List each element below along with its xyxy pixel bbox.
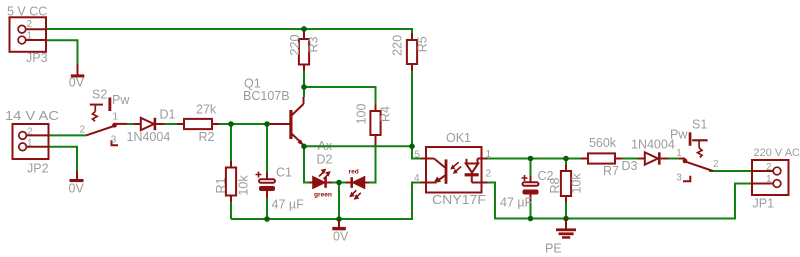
svg-text:Pw: Pw	[670, 128, 688, 142]
svg-text:R7: R7	[603, 164, 619, 178]
svg-text:3: 3	[111, 135, 117, 146]
svg-text:2: 2	[713, 159, 719, 170]
svg-text:2: 2	[80, 125, 86, 136]
svg-text:CNY17F: CNY17F	[432, 193, 486, 207]
svg-text:0V: 0V	[333, 230, 349, 244]
svg-text:1: 1	[27, 31, 33, 42]
svg-text:2: 2	[766, 162, 772, 173]
svg-text:47 µF: 47 µF	[272, 198, 305, 212]
svg-text:2: 2	[486, 169, 492, 180]
svg-text:1N4004: 1N4004	[127, 130, 171, 144]
svg-text:1: 1	[113, 112, 119, 123]
svg-text:R2: R2	[199, 130, 215, 144]
svg-text:R8: R8	[548, 177, 562, 193]
svg-text:560k: 560k	[589, 136, 617, 150]
svg-text:10k: 10k	[237, 175, 251, 196]
svg-text:BC107B: BC107B	[243, 89, 290, 103]
svg-text:2: 2	[27, 127, 33, 138]
svg-text:D3: D3	[622, 159, 638, 173]
svg-text:S2: S2	[92, 88, 107, 102]
svg-text:S1: S1	[692, 118, 707, 132]
svg-text:4: 4	[414, 173, 420, 184]
svg-text:PE: PE	[545, 242, 562, 256]
svg-text:0V: 0V	[69, 76, 85, 90]
svg-text:R5: R5	[416, 36, 430, 52]
svg-text:0V: 0V	[69, 181, 85, 195]
svg-text:R1: R1	[214, 177, 228, 193]
svg-text:Pw: Pw	[112, 93, 130, 107]
svg-text:220 V AC: 220 V AC	[754, 147, 800, 159]
svg-text:D2: D2	[317, 153, 333, 167]
svg-text:R4: R4	[379, 106, 393, 122]
svg-text:100: 100	[355, 104, 369, 125]
svg-text:10k: 10k	[569, 173, 583, 194]
svg-text:3: 3	[676, 173, 682, 184]
svg-text:1: 1	[27, 138, 33, 149]
svg-text:5: 5	[415, 150, 421, 161]
svg-text:D1: D1	[160, 108, 176, 122]
svg-text:green: green	[314, 192, 332, 199]
svg-text:JP1: JP1	[753, 197, 775, 211]
svg-text:JP2: JP2	[27, 162, 49, 176]
svg-text:220: 220	[288, 35, 302, 56]
svg-text:27k: 27k	[196, 103, 217, 117]
svg-text:C1: C1	[276, 166, 292, 180]
svg-text:1: 1	[766, 174, 772, 185]
svg-text:1: 1	[676, 148, 682, 159]
svg-text:5 V CC: 5 V CC	[7, 5, 47, 19]
svg-text:1N4004: 1N4004	[631, 138, 675, 152]
svg-text:JP3: JP3	[26, 51, 48, 65]
svg-text:47 µF: 47 µF	[500, 196, 533, 210]
svg-text:14 V AC: 14 V AC	[5, 109, 59, 123]
svg-text:OK1: OK1	[446, 131, 471, 145]
svg-text:2: 2	[27, 19, 33, 30]
svg-text:red: red	[349, 169, 359, 176]
svg-text:R3: R3	[307, 36, 321, 52]
svg-text:220: 220	[390, 35, 404, 56]
svg-text:1: 1	[486, 149, 492, 160]
